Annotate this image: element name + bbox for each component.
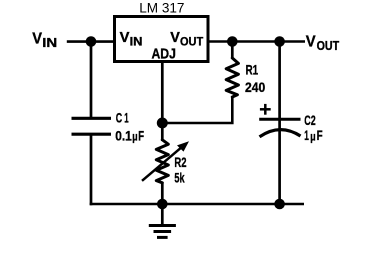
svg-text:μ: μ bbox=[132, 132, 137, 144]
wire R1 bottom to ADJ node bbox=[162, 97, 232, 124]
svg-text:IN: IN bbox=[42, 35, 57, 50]
svg-text:R2: R2 bbox=[174, 154, 186, 170]
svg-text:OUT: OUT bbox=[317, 38, 340, 53]
capacitor C2 (polarized) bbox=[259, 119, 300, 137]
wire R1 top stub bbox=[231, 42, 234, 59]
resistor R2 (variable) bbox=[156, 140, 168, 183]
svg-text:V: V bbox=[32, 30, 42, 47]
wire input horizontal bbox=[67, 40, 114, 43]
svg-text:1: 1 bbox=[124, 110, 129, 126]
svg-text:V: V bbox=[120, 30, 130, 46]
svg-text:C: C bbox=[116, 110, 122, 126]
pin VIN of LM317 bbox=[120, 30, 143, 49]
resistor R1 bbox=[226, 58, 238, 97]
pin VOUT of LM317 bbox=[170, 30, 203, 49]
svg-text:μ: μ bbox=[310, 131, 315, 143]
svg-text:F: F bbox=[317, 127, 323, 143]
wire output horizontal bbox=[209, 40, 305, 43]
node input junction bbox=[86, 36, 97, 47]
label C1 bbox=[116, 110, 129, 126]
wire R2 bottom to rail bbox=[161, 183, 164, 205]
svg-text:R1: R1 bbox=[246, 62, 259, 78]
svg-text:ADJ: ADJ bbox=[152, 47, 176, 63]
node output junction at R1 bbox=[227, 36, 238, 47]
wire C1 bottom to ground rail bbox=[90, 136, 93, 206]
svg-text:240: 240 bbox=[245, 79, 265, 95]
wire ground stub bbox=[161, 204, 164, 226]
op-amp U1 LM317 regulator box bbox=[115, 17, 209, 62]
svg-text:IN: IN bbox=[130, 35, 143, 49]
wire ground rail bbox=[90, 203, 304, 206]
svg-text:OUT: OUT bbox=[180, 35, 204, 49]
svg-text:5k: 5k bbox=[174, 170, 184, 186]
svg-text:C2: C2 bbox=[304, 112, 316, 128]
label VIN (input terminal) bbox=[32, 30, 57, 50]
wire input to C1 top bbox=[90, 42, 93, 118]
node output junction at C2 bbox=[274, 36, 285, 47]
svg-text:LM 317: LM 317 bbox=[139, 0, 184, 16]
capacitor C1 bbox=[72, 118, 112, 134]
svg-text:F: F bbox=[138, 127, 144, 143]
wire ADJ pin vertical bbox=[161, 62, 164, 141]
plus sign of C2 bbox=[260, 104, 271, 115]
node ground junction bbox=[157, 199, 168, 210]
ground symbol bbox=[149, 226, 176, 238]
node ADJ junction bbox=[157, 118, 168, 129]
wire C2 vertical bbox=[278, 42, 281, 205]
label 1uF bbox=[304, 127, 323, 143]
svg-text:1: 1 bbox=[304, 127, 309, 143]
svg-text:V: V bbox=[306, 34, 316, 51]
arrow of R2 wiper bbox=[142, 141, 189, 181]
svg-text:V: V bbox=[170, 30, 180, 46]
node C2 bottom junction bbox=[274, 199, 285, 210]
svg-text:0.1: 0.1 bbox=[115, 127, 132, 143]
label 0.1uF bbox=[115, 127, 144, 143]
label VOUT (output terminal) bbox=[306, 34, 339, 54]
